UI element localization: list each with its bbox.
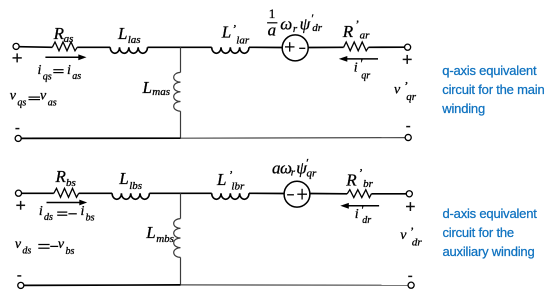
svg-text:v: v — [394, 83, 401, 98]
fraction bar of 1/a — [267, 22, 277, 24]
svg-text:a: a — [268, 21, 277, 40]
inductor L'lar — [212, 47, 249, 53]
label Llbs — [118, 169, 142, 192]
svg-text:circuit for the main: circuit for the main — [442, 82, 544, 97]
wire — [371, 193, 406, 195]
svg-text:v: v — [58, 237, 65, 252]
label Rbs — [55, 167, 76, 189]
svg-text:as: as — [72, 71, 81, 82]
svg-text:dr: dr — [312, 22, 323, 34]
label vqs = vas — [10, 89, 27, 109]
resistor Rbs — [54, 188, 79, 197]
label Lmas — [142, 78, 171, 98]
label iqs = ias — [38, 63, 52, 83]
svg-text:r: r — [293, 23, 298, 35]
minus sign: q-axis rotor — [406, 126, 410, 128]
plus sign: d-axis stator — [16, 201, 25, 210]
svg-text:’: ’ — [358, 165, 362, 179]
svg-text:winding: winding — [441, 101, 485, 116]
resistor R'br — [347, 190, 371, 198]
label Llas — [117, 24, 141, 46]
wire — [77, 46, 110, 48]
terminal: q-axis stator + — [13, 43, 19, 49]
svg-text:mbs: mbs — [156, 233, 174, 245]
wire — [21, 192, 53, 194]
minus sign: d-axis stator — [17, 275, 21, 277]
svg-text:dr: dr — [362, 215, 371, 226]
svg-text:br: br — [363, 178, 374, 190]
svg-text:lbs: lbs — [129, 180, 142, 192]
wire: bottom rail d-axis right — [181, 284, 409, 286]
svg-text:L: L — [221, 23, 231, 42]
label source top: 1/a wr psi'dr — [268, 6, 323, 40]
label + in source U1 — [285, 42, 295, 51]
minus sign: q-axis stator — [15, 128, 19, 130]
svg-text:q-axis equivalent: q-axis equivalent — [442, 63, 537, 78]
terminal: d-axis rotor - — [408, 282, 414, 288]
resistor Ras — [52, 42, 77, 51]
wire: bottom rail q-axis left — [21, 137, 180, 139]
svg-text:as: as — [64, 33, 74, 45]
resistor R'ar — [344, 42, 369, 51]
label R'ar — [342, 17, 370, 42]
svg-text:qs: qs — [43, 72, 52, 83]
svg-text:r: r — [291, 167, 296, 179]
svg-text:i: i — [81, 204, 85, 219]
svg-text:lar: lar — [236, 34, 250, 46]
label - in source U2 — [287, 194, 294, 196]
source U2: speed voltage a wr psi'qr — [284, 181, 310, 207]
terminal: d-axis stator + — [15, 190, 21, 196]
inductor Llas — [110, 47, 147, 53]
svg-text:′: ′ — [360, 56, 363, 70]
annotation: d-axis description — [443, 206, 538, 259]
svg-text:las: las — [128, 34, 141, 46]
terminal: q-axis rotor - — [405, 134, 411, 140]
wire — [308, 46, 344, 48]
label ids = -ibs — [39, 204, 53, 223]
arrow: ids current — [47, 202, 81, 204]
label i'dr — [355, 203, 372, 226]
label i'qr — [354, 56, 371, 81]
wire — [148, 46, 212, 48]
arrow: iqs current — [45, 56, 79, 58]
label L'lbr — [216, 167, 245, 192]
svg-text:ds: ds — [22, 246, 31, 257]
label source bottom: a wr psi'qr — [272, 155, 317, 179]
source U1: speed voltage (1/a)wr psi'dr — [282, 35, 308, 61]
arrow: i'qr current — [346, 58, 379, 60]
svg-text:i: i — [38, 63, 42, 78]
svg-text:ψ: ψ — [300, 14, 311, 33]
svg-text:’: ’ — [228, 167, 232, 181]
inductor Lmas — [174, 72, 181, 111]
svg-text:i: i — [355, 207, 359, 222]
label Ras — [53, 24, 74, 45]
plus sign: q-axis rotor — [403, 55, 412, 64]
svg-text:qr: qr — [406, 91, 417, 103]
svg-text:R: R — [345, 171, 357, 190]
wire — [249, 192, 284, 194]
label + in source U2 — [297, 189, 307, 200]
plus sign: d-axis rotor — [406, 202, 415, 211]
svg-text:L: L — [118, 169, 128, 188]
svg-text:circuit for the: circuit for the — [443, 225, 514, 240]
svg-text:as: as — [48, 98, 57, 109]
label - in source U1 — [299, 47, 305, 49]
svg-text:L: L — [145, 223, 155, 242]
inductor L'lbr — [212, 193, 249, 199]
svg-text:L: L — [216, 170, 226, 189]
svg-text:auxiliary winding: auxiliary winding — [443, 244, 535, 259]
label Lmbs — [145, 223, 174, 245]
svg-text:i: i — [354, 60, 358, 75]
svg-text:v: v — [40, 89, 47, 104]
plus sign: q-axis stator — [13, 53, 22, 62]
svg-text:L: L — [142, 78, 152, 97]
svg-text:’: ’ — [355, 17, 359, 31]
wire — [79, 192, 112, 194]
svg-text:qs: qs — [17, 98, 26, 109]
wire — [369, 46, 405, 48]
svg-text:v: v — [10, 89, 17, 104]
svg-text:qr: qr — [361, 70, 370, 81]
wire: magnetizing branch d — [180, 193, 182, 218]
svg-text:bs: bs — [66, 177, 76, 189]
svg-text:ar: ar — [360, 30, 371, 42]
svg-text:v: v — [15, 237, 22, 252]
svg-text:v: v — [400, 228, 407, 243]
svg-text:d-axis equivalent: d-axis equivalent — [443, 206, 538, 221]
label v'qr — [394, 79, 417, 104]
svg-text:R: R — [342, 22, 354, 41]
wire: bottom rail d-axis left — [24, 284, 181, 287]
svg-text:i: i — [39, 204, 43, 219]
minus sign: d-axis rotor — [408, 275, 412, 277]
terminal: q-axis stator - — [15, 135, 21, 141]
svg-text:ω: ω — [280, 14, 292, 33]
inductor Llbs — [112, 193, 149, 199]
label R'br — [345, 165, 373, 190]
svg-text:R: R — [55, 167, 67, 186]
wire — [180, 257, 182, 285]
arrow: i'dr current — [347, 205, 379, 207]
svg-text:bs: bs — [66, 246, 75, 257]
wire — [19, 46, 52, 49]
annotation: q-axis description — [441, 63, 544, 116]
label v'dr — [400, 224, 422, 249]
svg-text:L: L — [117, 24, 127, 43]
wire: magnetizing branch — [180, 47, 182, 72]
svg-text:ds: ds — [44, 212, 53, 223]
inductor Lmbs — [174, 219, 181, 258]
wire — [310, 193, 347, 195]
terminal: q-axis rotor + — [405, 44, 411, 50]
svg-text:lbr: lbr — [231, 181, 245, 193]
label L'lar — [221, 22, 250, 47]
wire: bottom rail q-axis right — [181, 137, 406, 140]
wire — [249, 46, 282, 48]
terminal: d-axis stator - — [18, 282, 24, 288]
svg-text:bs: bs — [86, 212, 95, 223]
svg-text:i: i — [67, 63, 71, 78]
svg-text:mas: mas — [152, 86, 170, 98]
label vds = -vbs — [15, 237, 32, 257]
svg-text:dr: dr — [412, 237, 423, 249]
svg-text:qr: qr — [307, 167, 318, 179]
wire — [180, 111, 182, 138]
terminal: d-axis rotor + — [406, 191, 412, 197]
wire — [149, 192, 211, 194]
svg-text:1: 1 — [269, 6, 276, 21]
